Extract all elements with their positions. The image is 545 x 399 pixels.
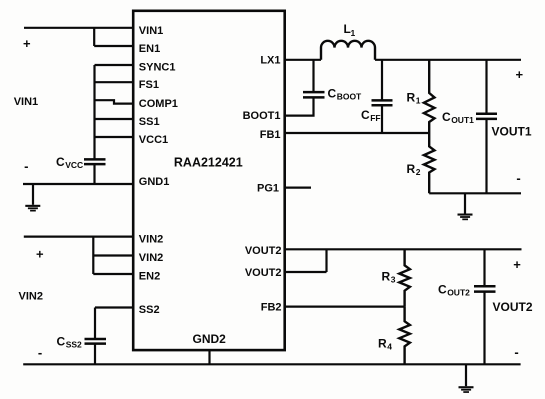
svg-text:C: C — [361, 108, 370, 122]
wire CVCC to GND1 — [93, 164, 95, 184]
svg-text:C: C — [57, 334, 66, 348]
wire GND1 rail — [23, 183, 133, 185]
svg-text:PG1: PG1 — [257, 182, 279, 194]
svg-text:3: 3 — [391, 274, 396, 284]
svg-text:-: - — [516, 171, 520, 186]
svg-text:-: - — [514, 345, 518, 360]
svg-text:+: + — [513, 257, 521, 272]
wire LX1 — [285, 59, 321, 61]
svg-text:BOOT: BOOT — [337, 91, 362, 101]
wire COUT1 lower leg — [485, 119, 487, 193]
svg-text:VIN2: VIN2 — [19, 291, 43, 303]
svg-text:FB2: FB2 — [261, 302, 282, 314]
svg-text:1: 1 — [416, 95, 421, 105]
svg-text:+: + — [23, 36, 31, 51]
wire GND2 stub — [208, 350, 210, 364]
svg-text:OUT2: OUT2 — [447, 287, 470, 297]
svg-text:C: C — [56, 155, 65, 169]
svg-text:COMP1: COMP1 — [139, 98, 178, 110]
wire SS1 — [95, 118, 134, 120]
wire ground stub upper right — [464, 193, 466, 213]
svg-text:GND2: GND2 — [193, 332, 227, 346]
wire ground stub left — [32, 184, 34, 205]
svg-text:R: R — [407, 162, 416, 176]
svg-text:VIN1: VIN1 — [139, 25, 163, 37]
svg-text:OUT1: OUT1 — [451, 115, 474, 125]
ground symbol left — [25, 205, 40, 212]
capacitor CBOOT — [303, 92, 325, 97]
svg-text:R: R — [378, 336, 387, 350]
svg-text:C: C — [328, 86, 337, 100]
wire VIN2/EN2 connector vertical — [92, 237, 94, 274]
wire FB1 — [285, 132, 430, 134]
capacitor CSS2 — [85, 339, 107, 344]
svg-text:BOOT1: BOOT1 — [243, 110, 281, 122]
svg-text:-: - — [24, 159, 28, 174]
svg-text:VOUT2: VOUT2 — [493, 300, 533, 314]
wire ground stub bottom right — [465, 364, 467, 386]
resistor R4 — [399, 307, 410, 365]
wire EN1 connector vertical — [93, 28, 95, 46]
wire SYNC1 — [95, 64, 134, 66]
svg-text:GND1: GND1 — [139, 176, 170, 188]
svg-text:VCC: VCC — [65, 160, 83, 170]
svg-text:EN1: EN1 — [139, 43, 160, 55]
wire VOUT2 second — [285, 271, 327, 273]
wire FS1 — [95, 81, 134, 83]
svg-text:VIN2: VIN2 — [139, 252, 163, 264]
capacitor COUT2 — [474, 286, 496, 291]
svg-text:-: - — [38, 345, 42, 360]
svg-text:2: 2 — [416, 167, 421, 177]
resistor R2 — [424, 133, 435, 193]
svg-text:VOUT1: VOUT1 — [492, 125, 532, 139]
svg-text:VIN2: VIN2 — [139, 233, 163, 245]
wire VOUT1 bottom rail — [429, 192, 521, 194]
capacitor CFF — [372, 100, 393, 105]
ground symbol upper right — [458, 214, 473, 221]
wire COUT1 upper leg — [485, 60, 487, 114]
wire VIN2 input rail — [24, 236, 133, 238]
svg-text:+: + — [36, 246, 44, 261]
wire CFF upper leg — [381, 60, 383, 101]
wire VOUT1 top rail — [375, 59, 521, 61]
wire COUT2 upper leg — [483, 249, 485, 286]
svg-text:1: 1 — [351, 28, 356, 38]
wire VOUT2 top rail — [285, 248, 522, 250]
wire PG1 stub — [285, 187, 311, 189]
svg-text:FF: FF — [370, 113, 380, 123]
wire CBOOT to BOOT1 — [285, 97, 314, 115]
op-amp U1 RAA212421 IC body — [133, 11, 285, 350]
svg-text:R: R — [407, 90, 416, 104]
svg-text:VIN1: VIN1 — [14, 96, 38, 108]
svg-text:C: C — [442, 110, 451, 124]
inductor L1 — [321, 41, 375, 60]
wire COMP1 with jog — [95, 100, 134, 103]
wire EN1 — [94, 45, 133, 47]
ground symbol bottom right — [459, 386, 474, 393]
wire SS2 — [95, 306, 133, 308]
svg-text:SS2: SS2 — [66, 339, 82, 349]
svg-text:SS1: SS1 — [139, 116, 160, 128]
wire SYNC1 bus vertical — [93, 65, 95, 159]
wire CSS2 to bottom rail — [94, 344, 96, 365]
svg-text:+: + — [516, 67, 524, 82]
svg-text:VOUT2: VOUT2 — [245, 245, 282, 257]
wire VOUT2 connector vertical — [325, 249, 327, 272]
svg-text:SYNC1: SYNC1 — [139, 61, 176, 73]
wire VCC1 — [95, 136, 134, 138]
wire FB2 — [285, 306, 405, 308]
wire CFF lower leg — [381, 105, 383, 133]
svg-text:FS1: FS1 — [139, 79, 159, 91]
svg-text:FB1: FB1 — [260, 129, 281, 141]
wire SS2 vertical — [94, 308, 96, 340]
wire COUT2 lower leg — [483, 292, 485, 365]
wire VIN2 second — [93, 254, 133, 256]
capacitor COUT1 — [476, 114, 497, 119]
capacitor CVCC — [84, 159, 106, 164]
svg-text:4: 4 — [387, 341, 392, 351]
resistor R3 — [399, 249, 410, 306]
wire CBOOT upper leg — [312, 60, 314, 92]
wire VIN1 input rail — [24, 27, 133, 29]
svg-text:RAA212421: RAA212421 — [174, 155, 243, 169]
svg-text:LX1: LX1 — [260, 55, 280, 67]
wire bottom ground rail — [23, 363, 520, 365]
svg-text:SS2: SS2 — [139, 304, 160, 316]
wire EN2 — [93, 273, 133, 275]
svg-text:VOUT2: VOUT2 — [245, 267, 282, 279]
resistor R1 — [424, 60, 435, 133]
svg-text:R: R — [382, 269, 391, 283]
svg-text:EN2: EN2 — [139, 271, 160, 283]
svg-text:VCC1: VCC1 — [139, 134, 168, 146]
svg-text:C: C — [438, 282, 447, 296]
